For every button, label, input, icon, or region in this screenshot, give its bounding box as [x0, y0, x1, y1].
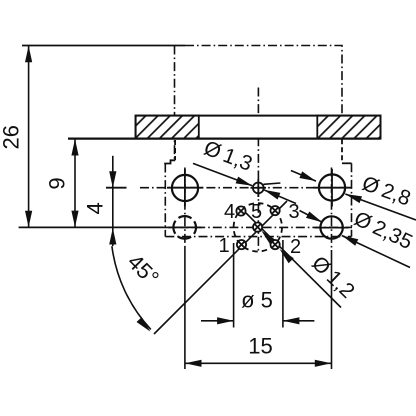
svg-text:ø 5: ø 5: [241, 288, 273, 313]
svg-text:4: 4: [83, 202, 108, 214]
svg-text:Ø 1,2: Ø 1,2: [307, 252, 359, 303]
svg-text:4: 4: [224, 201, 235, 223]
svg-text:2: 2: [290, 236, 301, 258]
svg-text:3: 3: [288, 201, 299, 223]
svg-text:Ø 2,35: Ø 2,35: [351, 207, 416, 254]
svg-text:26: 26: [0, 125, 23, 149]
svg-text:45°: 45°: [123, 249, 164, 290]
svg-text:Ø 2,8: Ø 2,8: [359, 172, 414, 211]
svg-text:5: 5: [251, 201, 262, 223]
svg-text:9: 9: [44, 177, 69, 189]
svg-text:15: 15: [248, 334, 272, 359]
svg-text:1: 1: [218, 235, 229, 257]
